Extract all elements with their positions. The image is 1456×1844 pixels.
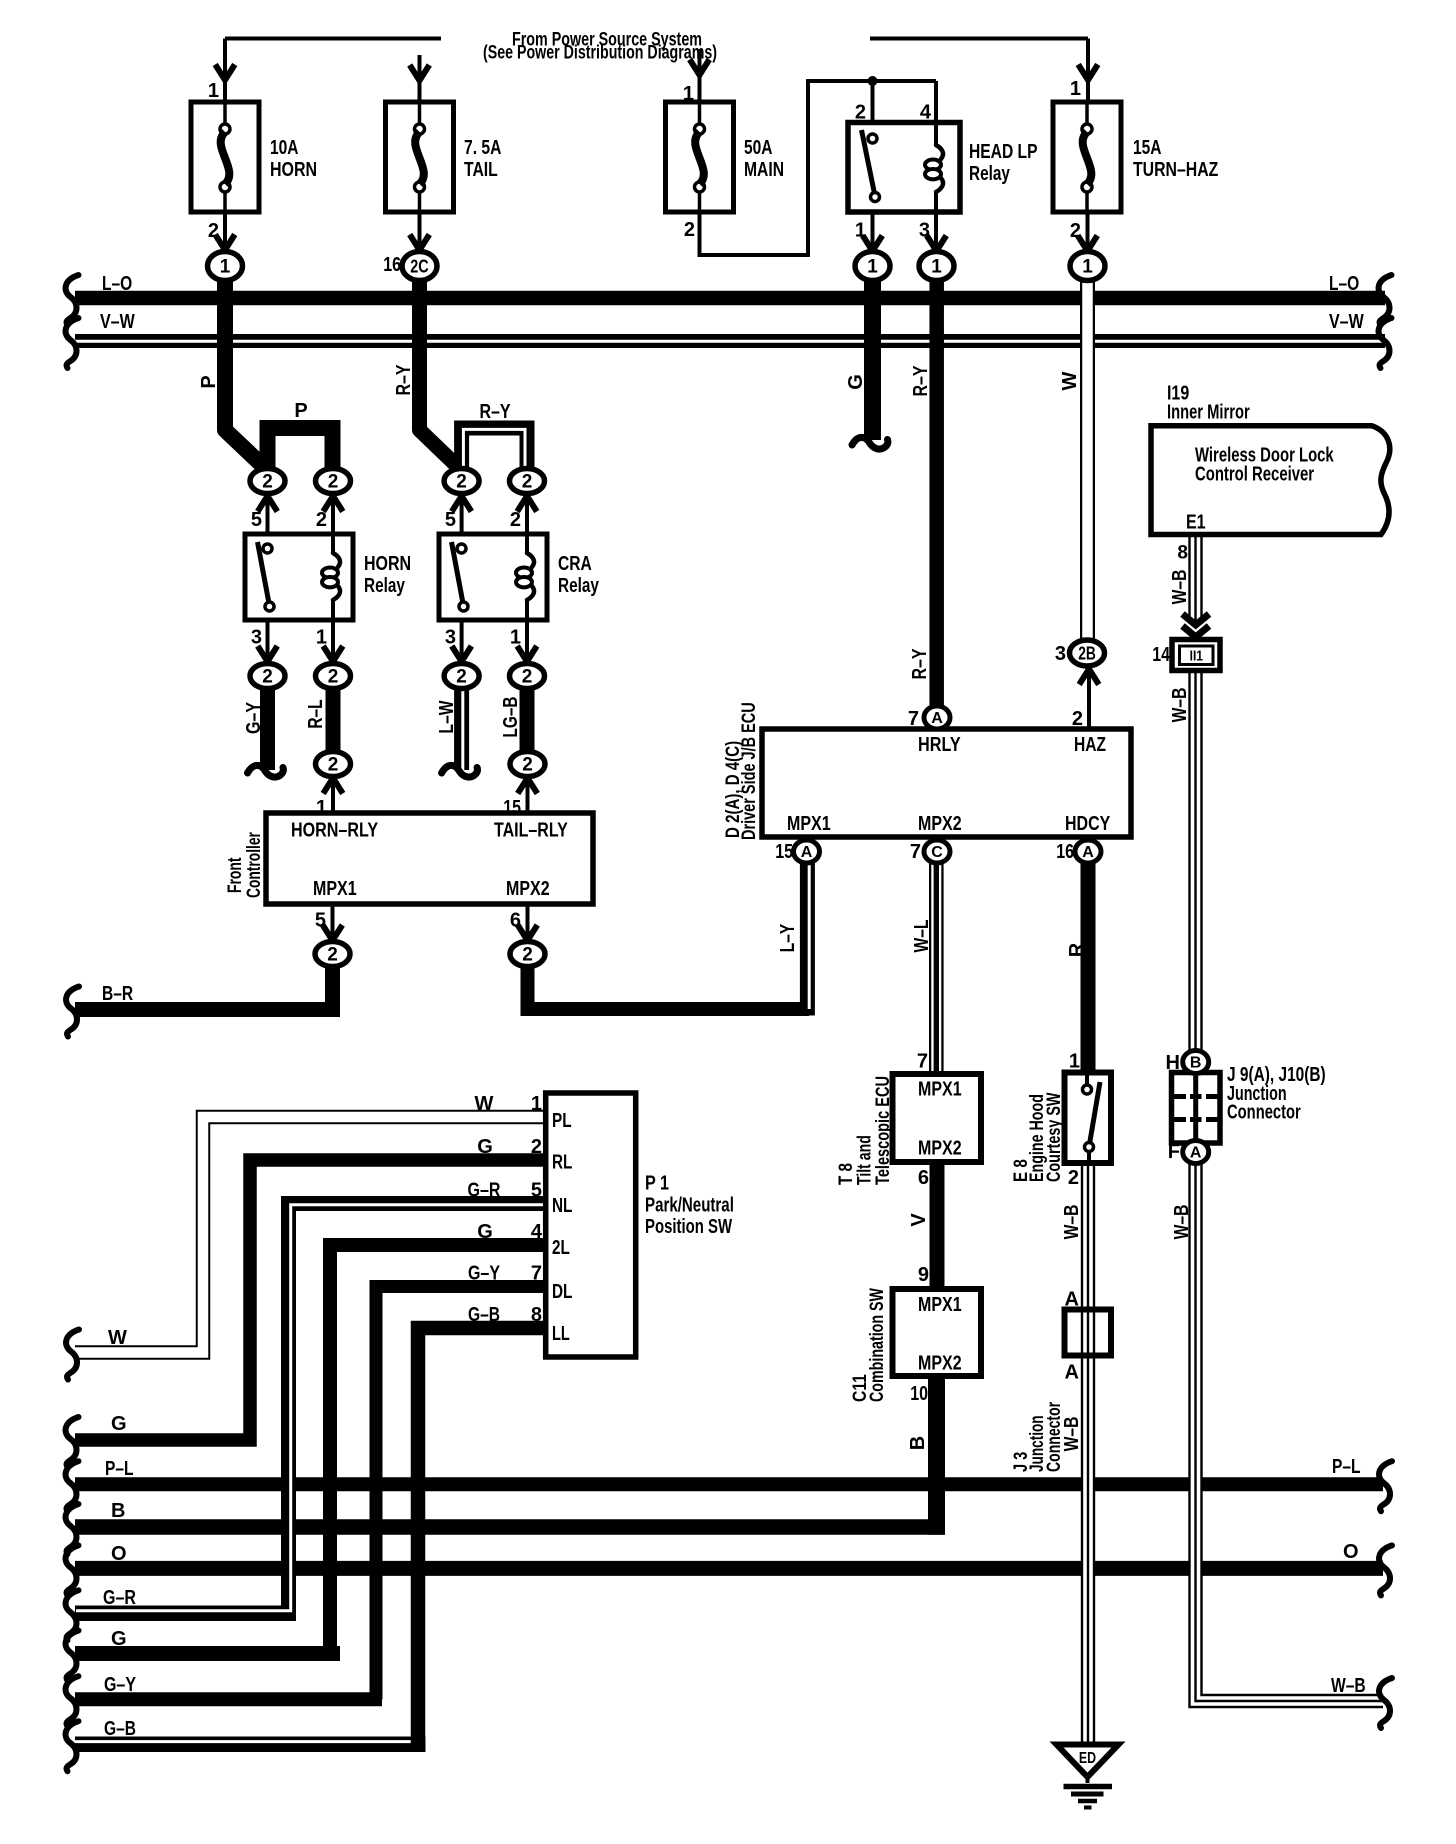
svg-text:2: 2	[1070, 220, 1081, 242]
svg-text:2: 2	[522, 755, 533, 776]
svg-text:B: B	[111, 1500, 125, 1522]
svg-text:NL: NL	[552, 1195, 572, 1217]
svg-text:G: G	[111, 1628, 127, 1650]
svg-text:10A: 10A	[270, 137, 299, 159]
svg-text:15A: 15A	[1133, 137, 1162, 159]
svg-text:1: 1	[208, 80, 219, 102]
svg-text:2: 2	[1068, 1167, 1079, 1189]
svg-text:P–L: P–L	[1332, 1456, 1361, 1478]
svg-text:1: 1	[1069, 1051, 1080, 1073]
svg-text:Telescopic ECU: Telescopic ECU	[873, 1076, 894, 1185]
svg-text:HDCY: HDCY	[1065, 813, 1111, 835]
svg-text:2: 2	[262, 472, 273, 493]
svg-text:HORN: HORN	[270, 159, 317, 181]
svg-text:2: 2	[522, 667, 533, 688]
svg-text:15: 15	[503, 797, 521, 819]
svg-text:2: 2	[208, 220, 219, 242]
svg-text:W–B: W–B	[1061, 1205, 1083, 1240]
svg-text:G: G	[111, 1413, 127, 1435]
svg-text:3: 3	[919, 220, 930, 242]
svg-text:W–L: W–L	[911, 920, 933, 953]
svg-text:2: 2	[328, 667, 339, 688]
svg-text:MPX2: MPX2	[918, 813, 962, 835]
svg-text:R–Y: R–Y	[910, 365, 932, 397]
svg-text:8: 8	[1177, 543, 1188, 564]
svg-text:W: W	[108, 1327, 127, 1349]
svg-text:F: F	[1168, 1141, 1180, 1163]
svg-text:2: 2	[456, 472, 467, 493]
svg-text:7. 5A: 7. 5A	[464, 137, 501, 159]
svg-text:O: O	[111, 1543, 127, 1565]
svg-text:R–L: R–L	[305, 699, 327, 728]
svg-text:RL: RL	[552, 1152, 572, 1174]
svg-text:1: 1	[855, 220, 866, 242]
svg-text:R–Y: R–Y	[909, 648, 931, 680]
svg-text:V–W: V–W	[100, 311, 135, 333]
svg-text:P: P	[294, 400, 307, 422]
svg-text:HORN: HORN	[364, 553, 411, 575]
svg-text:MAIN: MAIN	[744, 159, 784, 181]
svg-text:G–Y: G–Y	[468, 1263, 501, 1285]
svg-text:7: 7	[531, 1263, 542, 1285]
svg-text:A: A	[931, 710, 943, 727]
svg-text:2B: 2B	[1078, 644, 1096, 664]
svg-text:R–Y: R–Y	[479, 401, 511, 423]
svg-text:16: 16	[383, 254, 401, 276]
svg-text:Combination SW: Combination SW	[867, 1288, 888, 1402]
svg-text:G–B: G–B	[468, 1304, 500, 1326]
svg-text:2: 2	[855, 102, 866, 124]
svg-text:5: 5	[251, 509, 262, 531]
svg-text:1: 1	[316, 797, 327, 819]
svg-text:Relay: Relay	[364, 575, 406, 597]
svg-text:Front: Front	[225, 857, 246, 893]
svg-text:2: 2	[327, 945, 338, 966]
svg-text:MPX2: MPX2	[506, 878, 550, 900]
svg-text:2C: 2C	[410, 257, 428, 277]
svg-text:W–B: W–B	[1169, 688, 1191, 723]
svg-text:Courtesy SW: Courtesy SW	[1044, 1092, 1065, 1182]
svg-text:2: 2	[262, 667, 273, 688]
svg-text:LL: LL	[552, 1323, 570, 1345]
svg-text:PL: PL	[552, 1110, 572, 1132]
svg-text:A: A	[1082, 844, 1094, 861]
svg-text:L–W: L–W	[436, 700, 458, 733]
svg-text:TURN–HAZ: TURN–HAZ	[1133, 159, 1218, 181]
svg-text:2: 2	[522, 945, 533, 966]
svg-text:B: B	[907, 1436, 929, 1450]
svg-text:15: 15	[775, 841, 793, 863]
svg-text:Park/Neutral: Park/Neutral	[645, 1195, 734, 1217]
svg-text:4: 4	[920, 102, 932, 124]
svg-text:W–B: W–B	[1169, 570, 1191, 605]
svg-text:B: B	[1190, 1055, 1202, 1072]
svg-text:5: 5	[445, 509, 456, 531]
svg-text:Relay: Relay	[969, 163, 1011, 185]
svg-text:A: A	[801, 844, 813, 861]
svg-text:2: 2	[456, 667, 467, 688]
svg-text:Position SW: Position SW	[645, 1216, 732, 1238]
svg-text:L–O: L–O	[102, 273, 132, 295]
svg-text:II1: II1	[1190, 648, 1203, 665]
svg-text:3: 3	[1055, 643, 1066, 665]
svg-text:B–R: B–R	[102, 983, 134, 1005]
svg-text:1: 1	[316, 627, 327, 649]
svg-text:HAZ: HAZ	[1074, 734, 1106, 756]
svg-text:(See Power Distribution Diagra: (See Power Distribution Diagrams)	[483, 43, 717, 64]
svg-text:W: W	[475, 1093, 494, 1115]
svg-text:TAIL: TAIL	[464, 159, 498, 181]
svg-text:7: 7	[908, 708, 919, 730]
svg-text:2: 2	[510, 509, 521, 531]
svg-text:2: 2	[684, 219, 695, 241]
svg-text:MPX1: MPX1	[787, 813, 831, 835]
svg-text:E1: E1	[1186, 512, 1206, 534]
svg-text:16: 16	[1056, 841, 1074, 863]
svg-text:Driver Side J/B ECU: Driver Side J/B ECU	[739, 702, 760, 840]
svg-text:1: 1	[510, 627, 521, 649]
svg-text:4: 4	[531, 1221, 543, 1243]
svg-text:Connector: Connector	[1227, 1102, 1301, 1124]
svg-text:50A: 50A	[744, 137, 773, 159]
svg-text:G: G	[477, 1136, 493, 1158]
svg-text:MPX1: MPX1	[918, 1294, 962, 1316]
svg-text:1: 1	[531, 1093, 542, 1115]
svg-text:G–Y: G–Y	[104, 1674, 137, 1696]
svg-text:A: A	[1065, 1289, 1079, 1311]
svg-text:Inner Mirror: Inner Mirror	[1167, 402, 1250, 424]
svg-text:H: H	[1166, 1052, 1180, 1074]
svg-text:V: V	[908, 1213, 930, 1227]
svg-text:A: A	[1190, 1145, 1202, 1162]
svg-text:W: W	[1059, 371, 1081, 390]
svg-text:1: 1	[683, 83, 694, 105]
svg-text:8: 8	[531, 1304, 542, 1326]
svg-text:P: P	[198, 375, 220, 388]
svg-text:7: 7	[910, 841, 921, 863]
svg-text:G–R: G–R	[103, 1587, 136, 1609]
svg-text:P 1: P 1	[645, 1173, 669, 1195]
svg-text:Connector: Connector	[1044, 1401, 1065, 1472]
svg-text:1: 1	[931, 257, 942, 278]
svg-text:5: 5	[531, 1180, 542, 1202]
svg-text:2: 2	[522, 472, 533, 493]
svg-text:2: 2	[531, 1136, 542, 1158]
svg-text:MPX1: MPX1	[918, 1079, 962, 1101]
svg-text:9: 9	[918, 1264, 929, 1286]
svg-text:O: O	[1343, 1541, 1359, 1563]
svg-text:MPX2: MPX2	[918, 1138, 962, 1160]
svg-text:L–Y: L–Y	[777, 923, 799, 952]
svg-text:5: 5	[315, 910, 326, 932]
svg-text:Relay: Relay	[558, 575, 600, 597]
svg-text:2: 2	[316, 509, 327, 531]
svg-text:LG–B: LG–B	[500, 697, 522, 738]
svg-text:R: R	[1066, 942, 1088, 957]
svg-text:2: 2	[328, 472, 339, 493]
svg-text:W–B: W–B	[1171, 1205, 1193, 1240]
svg-text:MPX1: MPX1	[313, 878, 357, 900]
svg-text:10: 10	[910, 1383, 928, 1405]
svg-text:HRLY: HRLY	[918, 734, 961, 756]
svg-text:A: A	[1065, 1362, 1079, 1384]
svg-text:P–L: P–L	[105, 1458, 134, 1480]
svg-text:Control Receiver: Control Receiver	[1195, 464, 1314, 486]
svg-text:3: 3	[445, 627, 456, 649]
svg-text:1: 1	[1082, 257, 1093, 278]
svg-text:2L: 2L	[552, 1237, 570, 1259]
svg-text:G–R: G–R	[468, 1180, 501, 1202]
svg-text:HORN–RLY: HORN–RLY	[291, 820, 379, 842]
svg-text:ED: ED	[1079, 1750, 1096, 1767]
svg-text:G–Y: G–Y	[243, 701, 265, 734]
svg-text:G: G	[477, 1221, 493, 1243]
svg-text:1: 1	[867, 257, 878, 278]
svg-text:14: 14	[1152, 644, 1170, 666]
svg-text:6: 6	[918, 1167, 929, 1189]
svg-text:R–Y: R–Y	[393, 364, 415, 396]
svg-text:6: 6	[510, 910, 521, 932]
svg-text:G–B: G–B	[104, 1718, 136, 1740]
svg-text:7: 7	[917, 1051, 928, 1073]
svg-text:3: 3	[251, 627, 262, 649]
svg-text:V–W: V–W	[1329, 311, 1364, 333]
svg-text:1: 1	[1070, 78, 1081, 100]
svg-text:W–B: W–B	[1331, 1675, 1366, 1697]
svg-text:CRA: CRA	[558, 553, 592, 575]
svg-text:TAIL–RLY: TAIL–RLY	[494, 820, 568, 842]
svg-text:DL: DL	[552, 1281, 572, 1303]
svg-text:Controller: Controller	[244, 832, 265, 898]
svg-text:C: C	[931, 844, 943, 861]
svg-text:MPX2: MPX2	[918, 1353, 962, 1375]
svg-text:HEAD LP: HEAD LP	[969, 141, 1038, 163]
svg-text:1: 1	[220, 257, 231, 278]
svg-text:2: 2	[328, 755, 339, 776]
svg-text:L–O: L–O	[1329, 273, 1359, 295]
svg-text:G: G	[845, 374, 867, 390]
svg-text:2: 2	[1072, 708, 1083, 730]
